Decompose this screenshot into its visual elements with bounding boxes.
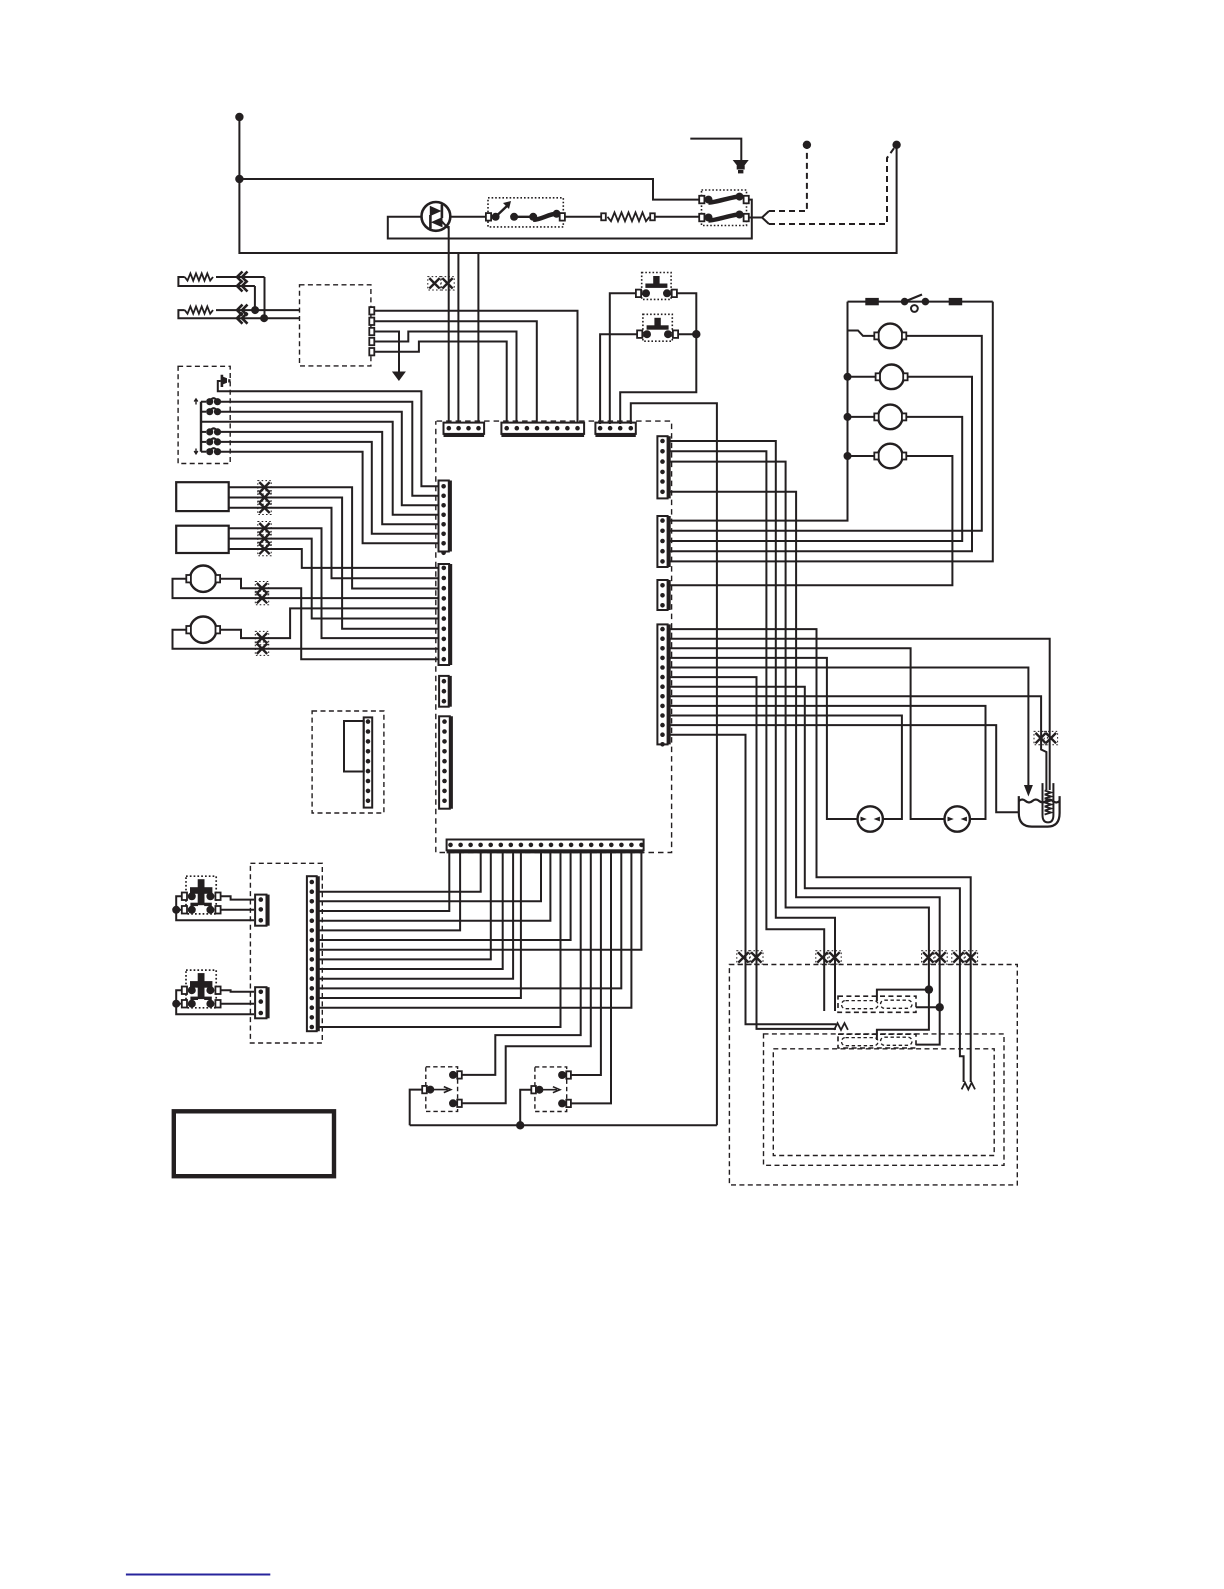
wire [238,117,240,179]
wire pair3R lower leg [916,1007,940,1044]
wire triac output down to TS1-1 [448,226,450,424]
wire V8 to board strip [319,852,503,970]
wire D8 to sensor left [669,696,1047,790]
twisted marks M1 [257,583,267,593]
resistor R1 heater element [216,276,265,278]
wire R3 to relay CR1 [655,216,700,218]
pushbutton PB2 [643,314,672,341]
wire B1 lamps common [669,302,848,521]
wire bottom rail [410,1124,717,1126]
switch box SB1 (dashed) [178,366,230,463]
wire V3 to board strip [319,852,551,921]
wire B1-2 to TSF-7 [229,498,439,629]
strip S2 [255,987,268,1018]
wire J8 to upper receptacle [877,990,929,1001]
lamp PL1 [848,331,877,336]
relay CR1 contacts (dotted enclosure) [699,190,749,226]
motor M1 [190,566,216,592]
wire D1 to pair4R [669,629,971,1082]
wire PB1 right to J7 [677,293,697,334]
node J7 [692,330,700,338]
wire K2 BL [176,1003,182,1005]
wire K1 TR to S1-1 [221,896,255,899]
terminal strip TSF [439,564,451,665]
wire plug to TSE-1 [218,381,439,486]
wire D5 arrow into cup [669,668,1029,787]
terminal strip TS1 [444,423,485,436]
wire D10 to valve1 right [669,716,902,820]
strip C right side terminal [657,580,669,610]
wire tap to TS1-2 [457,253,459,424]
wire PB2 right to J7 [678,333,696,335]
wire D11 to cup [669,725,1019,812]
wire B2-2 to TSF-6 [229,539,439,619]
wire A2 to remote pair2L [669,451,825,1011]
wire V0 to board strip [319,852,481,892]
wire K2 TR to S2-1 [221,990,255,992]
node J9 pair3R [936,1003,944,1011]
lamp PL2 [844,373,852,381]
wire D4 to valve1 left [669,658,858,819]
wire D12 to pair1L [669,735,837,1024]
wire J7 to TS3-3 [620,334,696,424]
wire SW3 to TSE-5 [218,432,439,524]
triac Q1 [422,202,451,231]
wire main rail left-down-right [239,146,896,253]
wire FS2 bottom to board [571,852,611,1104]
wire M2 right to TSF-5 [220,608,438,638]
connector lower receptacle [838,1034,916,1048]
wire PC1-4 to TS2-2 [375,332,517,425]
sensor tube with coil [1043,783,1054,822]
twisted mark tube [1036,733,1046,743]
twisted marks pair1 [738,952,748,962]
selector switches SW1-SW5 [201,401,206,403]
wire FS2 top to board [571,852,601,1076]
resistor R2 heater element [216,309,300,311]
wire V2 to board strip [319,852,450,912]
wire PB1 left to TS3-2 [610,293,636,424]
remote outer dashed box [729,965,1017,1185]
wire PC1-3 to ground [375,332,400,373]
motor M2 [190,617,216,643]
dashed enclosure DB1 [250,863,322,1043]
wire K1 BR to S1-2 [221,909,255,911]
wire D7 to pair4L [669,687,964,1082]
wire B2-1 to TSF-8 [229,528,439,638]
strip B right side terminal [657,516,669,567]
wire D3 to valve2 left [669,648,945,819]
wire FS1 arrow to rail [410,1090,423,1126]
wire A6 to remote pair3R [669,492,940,1008]
wire C1 to lamp4 [669,456,953,585]
lamp PL3 [844,413,852,421]
wire A1 to remote pair2R [669,441,836,1011]
pc board PC1 (dashed) [300,285,371,366]
node J5 [251,306,259,314]
main dashed enclosure [436,421,672,852]
twisted-pair mark TP1 [429,278,439,288]
wire K1 TL loop to S1-3 [176,896,254,920]
wire V4 to board strip [319,852,461,931]
node J6 [260,314,268,322]
wire SW1 to TSE-2 [218,402,439,496]
wire M1 right to TSF-10 [220,579,438,660]
strip V [307,876,319,1031]
blue underline [126,1574,270,1576]
wire V12 to board strip [319,852,632,1008]
strip S1 [255,895,268,926]
wire V6 to board strip [319,852,642,950]
flow switch FS2 [535,1067,567,1112]
node J2 [235,175,243,183]
wire M2 left to TSF-9 [173,630,439,649]
connector chevrons on R2 [237,305,248,316]
fuse F2 [949,298,963,305]
wire A3 to remote pair3L [669,462,929,990]
wire tap to TS1-4 [477,253,479,424]
wire pair3L lower leg [877,990,929,1040]
coil pair1 [834,1023,848,1030]
wire V7 to board strip [319,852,491,960]
arrow marks [194,399,198,405]
twisted marks M2 [257,633,267,643]
flow switch FS1 [426,1067,458,1112]
wire bus to relay CR1 top contact [239,179,700,200]
plug P2 (dashed) with pin header [312,711,384,813]
coil pair4 [962,1083,975,1090]
terminal strip TS3 [595,423,635,436]
wire dashed to J4 [769,148,807,211]
trigger switch K1 [186,876,216,914]
twisted marks B1 [259,482,269,492]
wire common to TSE-4 [201,422,439,515]
wire B2-3 to TSF-1 [229,549,439,568]
node J10 [172,906,180,914]
twisted marks pair4 [953,952,963,962]
wire M1 left to TSF-4 [173,579,439,598]
terminal strip TS2 [501,423,584,436]
terminal strip TSH [439,716,452,808]
wire V5 to board strip [319,852,571,941]
wire FS1 top to board [462,852,581,1075]
node J11 [172,1000,180,1008]
switch S2 rocker [901,298,909,306]
twisted marks pair3 [923,952,933,962]
fuse F1 [865,298,879,305]
connector chevrons on R1 [237,272,248,283]
wire B3 to lamp3 [669,417,963,541]
wire V11 to board strip [319,852,521,999]
pushbutton PB1 [642,273,671,300]
arrow head [1024,785,1033,797]
plug symbol P1 [221,375,227,387]
connector upper receptacle [838,996,916,1012]
legend box [174,1111,334,1176]
node J3 [892,141,900,149]
lamp PL4 [844,452,852,460]
wire K2 BR to S2-2 [221,1003,255,1005]
wire B4 to lamp2 [669,377,973,551]
wire PC1-2 to TS2-4 [375,321,537,424]
wire TS3-4 long vertical [631,403,717,1125]
wire SW4 to TSE-6 [218,442,439,534]
switch S1 (dotted enclosure) [486,198,565,227]
wire V1 to board strip [319,852,542,902]
wire K1 BL [176,909,182,911]
terminal strip TSG [439,676,450,707]
component box B1 [176,482,229,511]
wire D2 to sensor right [669,639,1050,790]
strip A right side terminal [657,436,669,498]
wire triac left loop [388,200,752,239]
resistor R3 [601,213,606,220]
wire FS2 arrow to rail [520,1090,531,1126]
gas valve GS2 [945,806,970,831]
wire CR1 to plug chevron [749,217,763,219]
wire R1 bottom lead down [254,286,256,310]
twisted marks B2 [259,523,269,533]
wire V9 to board strip [319,852,514,979]
plug chevron [762,211,769,224]
wire SW2 to TSE-3 [218,412,439,506]
wire V10 to board strip [319,852,622,989]
wire B5 fuse right [669,302,993,562]
switch common bar [200,402,202,452]
wire PC1-5 to TS2-1 [375,342,507,425]
PC1 pins [369,307,374,314]
component box B2 [176,526,229,553]
wire V13 to board strip [319,852,561,1028]
wire J9 to upper receptacle [916,1006,940,1008]
wire SW5 to TSE-7 [218,452,439,544]
node J12 [516,1121,524,1129]
remote mid dashed box [764,1034,1005,1165]
remote inner dashed box [773,1049,994,1156]
wire D6 to pair1R [669,677,837,1029]
wire R1 top lead down [264,277,266,318]
wire triac to switch S1 [449,216,487,218]
node J4 [803,141,811,149]
wire dashed to J3 [769,148,895,225]
terminal strip TSE [439,481,451,556]
twisted marks pair2 [817,952,827,962]
node J8 pair3L [925,985,933,993]
wire K2 TL loop to S2-3 [176,990,254,1014]
strip D right side terminal [657,624,669,746]
wire fuse line [848,301,993,303]
wire B1-1 to TSF-3 [229,487,439,588]
wire S1 to R3 [565,216,601,218]
wire PB2 left to TS3-1 [600,334,637,424]
wire B1-3 to TSF-2 [229,508,439,578]
trigger switch K2 [186,970,216,1008]
wire D9 to valve2 right [669,706,986,819]
wire B2 to lamp1 [669,336,982,531]
cup with liquid [1019,796,1060,827]
ground GND2 [690,139,741,160]
wire FS1 bottom to board [462,852,591,1104]
gas valve GS1 [858,806,883,831]
node J1 top feed [235,113,243,121]
wire PC1-1 to TS2-8 [375,311,578,424]
ground GND3 [392,372,406,382]
big strip BS [447,840,644,853]
